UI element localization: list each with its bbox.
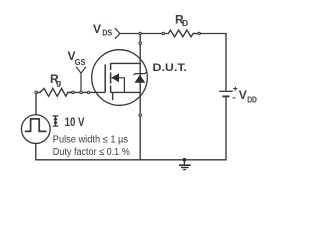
terminal circle: top junction on VDS rail (139, 32, 141, 34)
battery plus sign (233, 87, 237, 91)
wire: top rail VDS probe point to RD left terminal (120, 33, 167, 35)
battery VDD negative plate (222, 95, 229, 97)
svg-text:Pulse width ≤ 1 µs: Pulse width ≤ 1 µs (53, 135, 128, 146)
resistor RD zigzag (167, 30, 199, 37)
svg-text:D: D (182, 18, 188, 28)
terminal circle: Rg left (35, 91, 37, 93)
ground junction dot (183, 158, 187, 162)
svg-text:10 V: 10 V (65, 115, 85, 129)
terminal circle: drain terminal (139, 42, 141, 44)
svg-text:D.U.T.: D.U.T. (153, 62, 188, 74)
terminal circle: source terminal (139, 114, 141, 116)
10V dimension marker arrowheads (53, 116, 57, 120)
svg-text:DD: DD (247, 94, 257, 104)
terminal circle: VGS probe junction (80, 91, 82, 93)
wire: battery bottom lead, bottom rail, pulse generator bottom lead (36, 97, 226, 159)
VDS probe fork (115, 28, 120, 39)
MOSFET body connection L (118, 78, 124, 93)
terminal circle: gate terminal (87, 91, 89, 93)
MOSFET source stub inside circle (112, 92, 114, 100)
terminal circle: Rg right (72, 91, 74, 93)
VGS probe fork and lead (76, 67, 86, 93)
drain-source vertical wire (139, 34, 141, 160)
svg-text:V: V (93, 22, 101, 36)
terminal circle: RD right (198, 32, 200, 34)
resistor Rg zigzag (36, 88, 73, 96)
svg-text:GS: GS (75, 57, 86, 67)
MOSFET drain tap (111, 62, 141, 64)
wire: RD right terminal to top-right corner, down right rail to battery (193, 34, 226, 91)
wire: pulse generator top lead to Rg left terminal (35, 92, 37, 114)
pulse waveform inside generator (25, 119, 47, 131)
body diode triangle (135, 75, 146, 83)
MOSFET source bar (111, 91, 141, 93)
MOSFET gate line (104, 64, 106, 92)
MOSFET channel bottom segment (110, 86, 112, 93)
terminal circle: RD left (162, 32, 164, 34)
wire: Rg to MOSFET gate lead (67, 91, 105, 93)
battery minus sign (233, 97, 236, 99)
svg-text:g: g (56, 78, 61, 88)
ground symbol (179, 160, 191, 170)
10V dimension marker ticks (53, 116, 59, 126)
MOSFET channel top segment (110, 63, 112, 70)
body diode cathode bar (zener style) (134, 72, 147, 75)
svg-text:V: V (239, 88, 247, 102)
svg-text:DS: DS (102, 27, 112, 37)
svg-text:Duty factor ≤ 0.1 %: Duty factor ≤ 0.1 % (53, 147, 130, 158)
pulse generator circle (21, 115, 50, 144)
MOSFET body arrow (points left into channel) (111, 73, 119, 82)
MOSFET channel middle segment (110, 72, 112, 83)
battery VDD positive plate (219, 90, 233, 92)
MOSFET D.U.T. body circle (92, 50, 148, 106)
